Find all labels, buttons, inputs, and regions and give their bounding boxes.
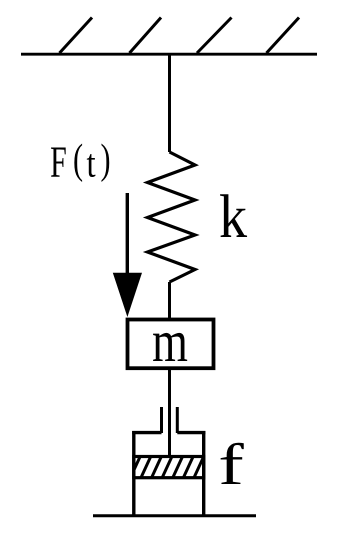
ceiling hatch 4 — [267, 18, 300, 54]
wire from ceiling to spring — [168, 54, 171, 152]
svg-text:f: f — [218, 432, 244, 497]
damper collar left — [160, 407, 163, 433]
wire from mass to damper rod — [168, 368, 171, 458]
wire from spring to mass — [168, 282, 171, 320]
ceiling hatch 2 — [130, 18, 162, 54]
ceiling hatch 1 — [60, 18, 93, 54]
svg-text:F: F — [50, 138, 67, 187]
svg-text:): ) — [100, 135, 110, 182]
damper cylinder left wall — [132, 431, 135, 517]
force arrow F(t) — [126, 193, 129, 280]
damper piston hatched — [130, 456, 215, 479]
ceiling line — [21, 53, 317, 56]
label F(t) — [50, 135, 110, 187]
mass m box — [128, 320, 214, 369]
damper cylinder right wall — [202, 431, 205, 517]
ceiling hatch 3 — [197, 18, 232, 54]
svg-text:t: t — [87, 141, 96, 186]
spring k — [148, 152, 196, 282]
svg-text:k: k — [219, 183, 248, 251]
svg-text:m: m — [152, 310, 188, 375]
damper cylinder top right — [177, 431, 205, 434]
damper cylinder top left — [132, 431, 161, 434]
damper collar right — [176, 407, 179, 433]
ground line — [93, 514, 256, 517]
svg-text:(: ( — [73, 135, 83, 182]
